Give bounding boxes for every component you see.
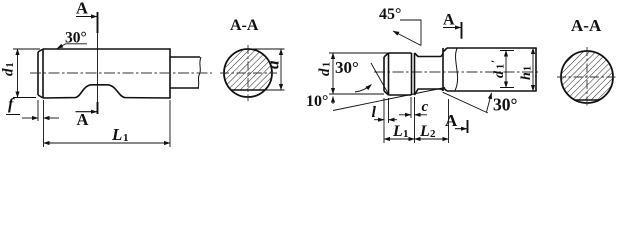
svg-text:L: L xyxy=(392,123,403,140)
svg-text:A-A: A-A xyxy=(571,16,602,35)
svg-text:30°: 30° xyxy=(493,95,518,115)
svg-text:1: 1 xyxy=(5,63,16,68)
svg-text:a: a xyxy=(264,60,283,69)
svg-text:10°: 10° xyxy=(306,93,328,110)
svg-text:A: A xyxy=(445,111,458,130)
svg-text:′: ′ xyxy=(488,60,502,63)
svg-text:l: l xyxy=(372,104,377,121)
svg-text:1: 1 xyxy=(123,132,129,144)
svg-text:1: 1 xyxy=(523,66,534,71)
svg-text:d: d xyxy=(1,68,17,76)
svg-text:A-A: A-A xyxy=(230,17,259,34)
svg-text:A: A xyxy=(76,0,88,18)
svg-text:L: L xyxy=(419,123,430,140)
svg-text:2: 2 xyxy=(430,128,436,140)
svg-text:45°: 45° xyxy=(379,6,401,23)
svg-text:d: d xyxy=(317,68,333,76)
svg-text:1: 1 xyxy=(496,64,507,69)
svg-text:1: 1 xyxy=(403,128,409,140)
svg-text:A: A xyxy=(443,12,455,29)
svg-text:f: f xyxy=(8,96,15,113)
svg-text:1: 1 xyxy=(322,62,333,67)
svg-text:c: c xyxy=(422,99,429,115)
svg-text:30°: 30° xyxy=(335,58,359,77)
svg-text:L: L xyxy=(111,125,122,144)
svg-text:d: d xyxy=(492,70,507,78)
svg-text:30°: 30° xyxy=(65,30,87,47)
svg-text:A: A xyxy=(77,110,89,129)
svg-text:h: h xyxy=(519,72,534,80)
